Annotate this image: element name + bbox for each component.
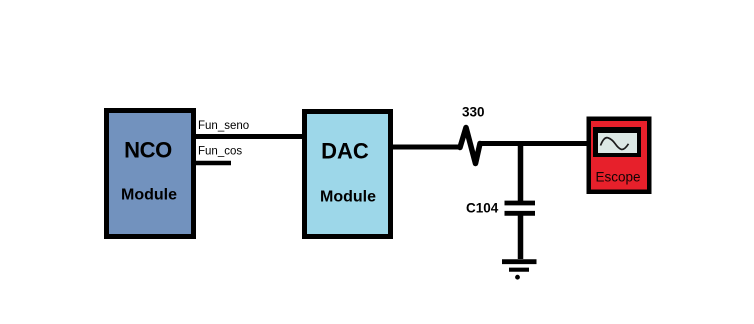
wire capacitor to ground <box>518 215 524 259</box>
svg-text:C104: C104 <box>466 201 499 216</box>
scope trace sine <box>601 138 629 150</box>
svg-text:DAC: DAC <box>321 139 369 164</box>
wire capacitor branch down <box>518 143 524 203</box>
capacitor C104 plates <box>505 203 536 213</box>
svg-text:330: 330 <box>462 105 485 120</box>
wire DAC output to resistor <box>393 145 461 150</box>
wire resistor to scope <box>479 141 588 146</box>
svg-text:Fun_seno: Fun_seno <box>198 120 249 132</box>
svg-text:Module: Module <box>121 187 177 204</box>
oscilloscope Escope <box>587 117 652 195</box>
wire Fun_cos stub <box>194 161 231 166</box>
svg-text:Fun_cos: Fun_cos <box>198 146 242 158</box>
block DAC module <box>305 112 391 237</box>
svg-text:Module: Module <box>320 189 376 206</box>
block NCO module <box>107 111 194 237</box>
ground <box>502 262 537 280</box>
svg-text:NCO: NCO <box>124 138 172 163</box>
svg-text:Escope: Escope <box>596 170 641 185</box>
resistor R 330 zigzag <box>460 128 480 164</box>
wire Fun_seno (NCO to DAC) <box>196 134 303 139</box>
